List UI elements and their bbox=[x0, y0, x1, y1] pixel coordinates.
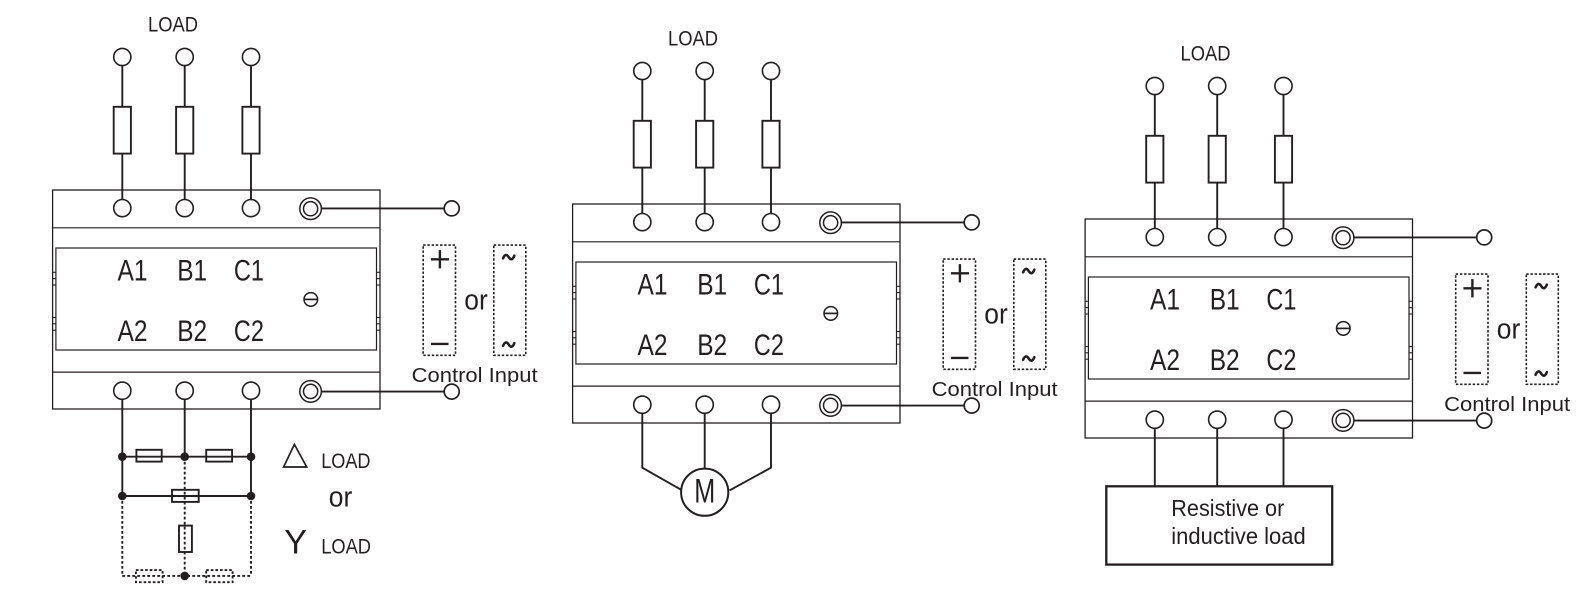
minus sign (diagram 1) bbox=[431, 343, 449, 345]
junction node row2 right bbox=[247, 492, 256, 501]
wire: fuse F3 to SSR terminal C1 (diagram 1) bbox=[250, 154, 252, 200]
SSR U1 control input terminal (bottom, double ring) bbox=[300, 381, 322, 403]
SSR U2 screw terminal C2 bbox=[762, 396, 779, 413]
AC control source dashed box (diagram 3) bbox=[1526, 274, 1558, 384]
wire: delta row 2 horizontal bbox=[122, 495, 251, 497]
wire: B2 to load box (diagram 3) bbox=[1216, 428, 1218, 486]
wire: right vertical row1-row2 bbox=[250, 457, 252, 496]
SSR U2 bottom terminal strip line bbox=[573, 385, 900, 387]
SSR module U2 body outline bbox=[573, 204, 900, 423]
wire: control + lead (diagram 1) bbox=[321, 207, 444, 209]
svg-text:C1: C1 bbox=[754, 268, 784, 301]
SSR U3 left side clip marks bbox=[1085, 300, 1088, 302]
svg-text:Control Input: Control Input bbox=[932, 378, 1058, 401]
SSR U3 right side clip marks bbox=[1409, 300, 1413, 302]
control input node circle bottom (diagram 2) bbox=[964, 398, 979, 413]
SSR U2 left side clip marks bbox=[573, 285, 576, 287]
SSR U2 right side clip marks bbox=[897, 285, 901, 287]
fuse F3 (diagram 2) bbox=[762, 121, 779, 168]
fuse F2 (diagram 1) bbox=[176, 107, 193, 154]
wire: fuse F2 to SSR terminal B1 (diagram 2) bbox=[704, 168, 706, 214]
wye load element R5 (dashed) bbox=[136, 570, 163, 582]
svg-text:or: or bbox=[984, 299, 1008, 331]
SSR U2 control input terminal (bottom, double ring) bbox=[820, 395, 842, 417]
wire: control - lead (diagram 3) bbox=[1354, 420, 1477, 422]
dashed wire: center vertical to star point bbox=[184, 457, 186, 576]
junction node row1 center bbox=[180, 452, 189, 461]
svg-text:LOAD: LOAD bbox=[321, 536, 371, 559]
wire: control + lead (diagram 3) bbox=[1354, 236, 1477, 238]
wire: load terminal C to fuse F3 (diagram 3) bbox=[1283, 95, 1285, 136]
load source terminal circle B (diagram 2) bbox=[696, 62, 713, 79]
dashed wire: wye bottom row horizontal bbox=[122, 575, 251, 577]
svg-text:C1: C1 bbox=[1266, 283, 1296, 316]
svg-text:Resistive or: Resistive or bbox=[1171, 495, 1284, 521]
svg-text:LOAD: LOAD bbox=[668, 28, 718, 51]
wire: load terminal A to fuse F1 (diagram 3) bbox=[1154, 95, 1156, 136]
SSR U1 screw terminal C2 bbox=[242, 382, 259, 399]
DC control source dashed box (diagram 3) bbox=[1456, 274, 1488, 384]
dashed wire: left vertical to wye row bbox=[121, 496, 123, 576]
wire: fuse F3 to SSR terminal C1 (diagram 3) bbox=[1283, 183, 1285, 229]
wire: load terminal B to fuse F2 (diagram 2) bbox=[704, 80, 706, 121]
SSR U3 screw terminal A1 bbox=[1146, 229, 1163, 246]
motor M circle (diagram 2) bbox=[681, 469, 728, 516]
SSR U3 screw terminal A2 bbox=[1146, 411, 1163, 428]
SSR U1 left side clip marks bbox=[53, 271, 56, 273]
wire: load terminal C to fuse F3 (diagram 1) bbox=[250, 66, 252, 107]
wire: B2 down to delta row (diagram 1) bbox=[184, 399, 186, 456]
svg-text:A1: A1 bbox=[1150, 283, 1180, 316]
SSR U1 right side clip marks bbox=[377, 271, 381, 273]
svg-text:A2: A2 bbox=[118, 315, 148, 348]
load source terminal circle C (diagram 3) bbox=[1275, 77, 1292, 94]
svg-text:LOAD: LOAD bbox=[321, 450, 370, 473]
svg-text:C2: C2 bbox=[754, 329, 784, 362]
svg-text:B2: B2 bbox=[697, 329, 727, 362]
svg-text:or: or bbox=[1497, 314, 1521, 346]
SSR U3 top terminal strip line bbox=[1085, 256, 1412, 258]
svg-text:C2: C2 bbox=[1266, 344, 1296, 377]
delta load element R3 bbox=[172, 490, 199, 502]
svg-text:M: M bbox=[694, 473, 715, 511]
svg-text:B2: B2 bbox=[177, 315, 207, 348]
wire: A2 down to delta row (diagram 1) bbox=[121, 399, 123, 456]
fuse F1 (diagram 3) bbox=[1146, 136, 1163, 183]
svg-text:A1: A1 bbox=[638, 268, 668, 301]
AC tilde bottom (diagram 2) bbox=[1023, 356, 1034, 360]
fuse F3 (diagram 3) bbox=[1275, 136, 1292, 183]
delta symbol triangle bbox=[284, 444, 307, 467]
SSR U2 screw terminal A2 bbox=[634, 396, 651, 413]
wire: A2 to load box (diagram 3) bbox=[1154, 428, 1156, 486]
wire: fuse F3 to SSR terminal C1 (diagram 2) bbox=[770, 168, 772, 214]
SSR U2 control input terminal (top, double ring) bbox=[820, 212, 842, 234]
delta load element R1 bbox=[136, 450, 161, 462]
plus sign (diagram 3) bbox=[1463, 287, 1481, 289]
wire: B2 to motor (diagram 2) bbox=[704, 413, 706, 468]
fuse F1 (diagram 2) bbox=[634, 121, 651, 168]
wye load element R4 (vertical) bbox=[179, 526, 192, 552]
wye load element R6 (dashed) bbox=[206, 570, 232, 582]
AC tilde bottom (diagram 1) bbox=[503, 342, 514, 346]
load source terminal circle A (diagram 1) bbox=[114, 48, 131, 65]
AC tilde bottom (diagram 3) bbox=[1536, 371, 1547, 375]
SSR U3 bottom terminal strip line bbox=[1085, 400, 1412, 402]
SSR U2 screw terminal C1 bbox=[762, 214, 779, 231]
load source terminal circle C (diagram 2) bbox=[762, 62, 779, 79]
AC tilde top (diagram 2) bbox=[1023, 269, 1034, 273]
svg-text:or: or bbox=[464, 285, 488, 317]
wire: control - lead (diagram 2) bbox=[841, 405, 964, 407]
wire: control - lead (diagram 1) bbox=[321, 391, 444, 393]
plus sign (diagram 2) bbox=[951, 272, 969, 274]
SSR U3 screw terminal B1 bbox=[1209, 229, 1226, 246]
junction node row1 right bbox=[247, 452, 256, 461]
svg-text:Y: Y bbox=[284, 523, 307, 561]
SSR U1 screw terminal A1 bbox=[114, 200, 131, 217]
dashed wire: right vertical to wye row bbox=[250, 496, 252, 576]
AC control source dashed box (diagram 2) bbox=[1014, 259, 1046, 369]
SSR U1 front label panel bbox=[56, 248, 377, 350]
wire: fuse F2 to SSR terminal B1 (diagram 1) bbox=[184, 154, 186, 200]
AC tilde top (diagram 3) bbox=[1536, 284, 1547, 288]
svg-text:C1: C1 bbox=[234, 254, 264, 287]
wire: load terminal C to fuse F3 (diagram 2) bbox=[770, 80, 772, 121]
SSR U3 screw terminal C2 bbox=[1275, 411, 1292, 428]
AC control source dashed box (diagram 1) bbox=[494, 245, 526, 355]
plus sign (diagram 1) bbox=[431, 258, 449, 260]
wire: load terminal A to fuse F1 (diagram 1) bbox=[121, 66, 123, 107]
svg-text:LOAD: LOAD bbox=[148, 14, 198, 37]
SSR U3 screw terminal B2 bbox=[1209, 411, 1226, 428]
fuse F2 (diagram 3) bbox=[1209, 136, 1226, 183]
junction node row1 left bbox=[118, 452, 127, 461]
wire: fuse F2 to SSR terminal B1 (diagram 3) bbox=[1216, 183, 1218, 229]
wire: C2 down to delta row (diagram 1) bbox=[250, 399, 252, 456]
SSR U1 screw terminal B2 bbox=[176, 382, 193, 399]
SSR U2 top terminal strip line bbox=[573, 241, 900, 243]
wire: C2 to load box (diagram 3) bbox=[1283, 428, 1285, 486]
load source terminal circle A (diagram 2) bbox=[634, 62, 651, 79]
svg-text:B1: B1 bbox=[177, 254, 207, 287]
svg-text:A2: A2 bbox=[638, 329, 668, 362]
SSR U1 bottom terminal strip line bbox=[53, 371, 380, 373]
control input node circle top (diagram 3) bbox=[1477, 230, 1492, 245]
delta load element R2 bbox=[206, 450, 232, 462]
control input node circle top (diagram 2) bbox=[964, 215, 979, 230]
wire: load terminal A to fuse F1 (diagram 2) bbox=[641, 80, 643, 121]
svg-text:A1: A1 bbox=[118, 254, 148, 287]
control input node circle bottom (diagram 3) bbox=[1477, 413, 1492, 428]
wire: C2 to motor (diagram 2) bbox=[730, 413, 772, 490]
fuse F1 (diagram 1) bbox=[114, 107, 131, 154]
SSR U3 control input terminal (top, double ring) bbox=[1332, 227, 1354, 249]
load source terminal circle C (diagram 1) bbox=[242, 48, 259, 65]
indicator screw head on U3 bbox=[1337, 322, 1351, 336]
load source terminal circle A (diagram 3) bbox=[1146, 77, 1163, 94]
SSR U1 control input terminal (top, double ring) bbox=[300, 198, 322, 220]
SSR module U3 body outline bbox=[1085, 219, 1412, 438]
wire: load terminal B to fuse F2 (diagram 3) bbox=[1216, 95, 1218, 136]
minus sign (diagram 3) bbox=[1464, 372, 1482, 374]
indicator screw head on U2 bbox=[824, 307, 838, 321]
SSR U2 screw terminal B2 bbox=[696, 396, 713, 413]
SSR U3 screw terminal C1 bbox=[1275, 229, 1292, 246]
svg-text:C2: C2 bbox=[234, 315, 264, 348]
SSR U2 front label panel bbox=[576, 262, 897, 364]
wire: delta row 1 horizontal bbox=[122, 456, 251, 458]
SSR U1 screw terminal C1 bbox=[242, 200, 259, 217]
load source terminal circle B (diagram 1) bbox=[176, 48, 193, 65]
svg-text:B2: B2 bbox=[1210, 344, 1240, 377]
load source terminal circle B (diagram 3) bbox=[1209, 77, 1226, 94]
wye star point node bbox=[180, 572, 189, 581]
wire: fuse F1 to SSR terminal A1 (diagram 1) bbox=[121, 154, 123, 200]
SSR U2 screw terminal A1 bbox=[634, 214, 651, 231]
wire: load terminal B to fuse F2 (diagram 1) bbox=[184, 66, 186, 107]
SSR U3 front label panel bbox=[1088, 277, 1409, 379]
AC tilde top (diagram 1) bbox=[503, 255, 514, 259]
wire: fuse F1 to SSR terminal A1 (diagram 3) bbox=[1154, 183, 1156, 229]
fuse F2 (diagram 2) bbox=[696, 121, 713, 168]
control input node circle bottom (diagram 1) bbox=[444, 384, 459, 399]
minus sign (diagram 2) bbox=[951, 357, 969, 359]
DC control source dashed box (diagram 1) bbox=[423, 245, 455, 355]
svg-text:inductive load: inductive load bbox=[1171, 523, 1305, 549]
DC control source dashed box (diagram 2) bbox=[943, 259, 975, 369]
indicator screw head on U1 bbox=[304, 293, 318, 307]
svg-text:LOAD: LOAD bbox=[1181, 43, 1231, 66]
svg-text:Control Input: Control Input bbox=[412, 364, 538, 387]
SSR U1 screw terminal B1 bbox=[176, 200, 193, 217]
svg-text:A2: A2 bbox=[1150, 344, 1180, 377]
svg-text:Control Input: Control Input bbox=[1444, 393, 1570, 416]
svg-text:B1: B1 bbox=[1210, 283, 1240, 316]
wire: A2 to motor (diagram 2) bbox=[642, 413, 682, 490]
svg-text:or: or bbox=[329, 481, 353, 513]
SSR U1 top terminal strip line bbox=[53, 227, 380, 229]
junction node row2 left bbox=[118, 492, 127, 501]
resistive or inductive load box (diagram 3) bbox=[1106, 486, 1332, 564]
wire: control + lead (diagram 2) bbox=[841, 221, 964, 223]
fuse F3 (diagram 1) bbox=[242, 107, 259, 154]
SSR U3 control input terminal (bottom, double ring) bbox=[1332, 410, 1354, 432]
SSR module U1 body outline bbox=[53, 190, 380, 409]
svg-text:B1: B1 bbox=[697, 268, 727, 301]
control input node circle top (diagram 1) bbox=[444, 201, 459, 216]
wire: fuse F1 to SSR terminal A1 (diagram 2) bbox=[641, 168, 643, 214]
SSR U1 screw terminal A2 bbox=[114, 382, 131, 399]
wire: left vertical row1-row2 bbox=[121, 457, 123, 496]
SSR U2 screw terminal B1 bbox=[696, 214, 713, 231]
